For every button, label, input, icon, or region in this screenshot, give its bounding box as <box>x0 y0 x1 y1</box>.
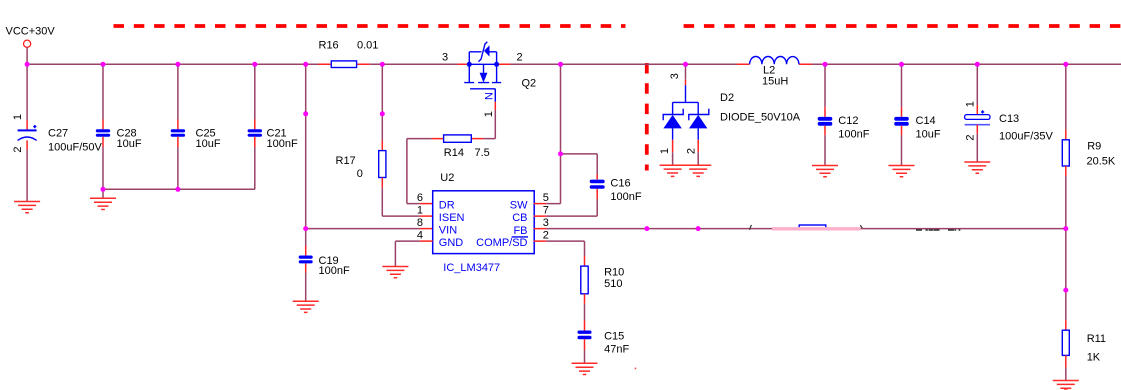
svg-text:R10: R10 <box>604 266 624 278</box>
wire SW pin to bus <box>546 64 560 203</box>
svg-text:R17: R17 <box>336 155 356 167</box>
svg-text:20.5K: 20.5K <box>1087 155 1116 167</box>
wire R9 to R11 <box>1065 229 1067 321</box>
ground for D2 pin1 <box>660 165 686 176</box>
svg-text:2: 2 <box>12 147 24 153</box>
wire VIN branch <box>306 64 433 228</box>
svg-text:510: 510 <box>604 278 622 290</box>
svg-text:0.01: 0.01 <box>357 40 378 52</box>
svg-text:U2: U2 <box>440 172 454 184</box>
transistor Q2 <box>442 42 536 118</box>
wire FB highlighted segment <box>772 227 861 230</box>
svg-text:1: 1 <box>483 111 495 117</box>
svg-text:3: 3 <box>543 217 549 229</box>
svg-text:COMP/SD: COMP/SD <box>476 237 527 249</box>
wire Q2 gate to R14 <box>483 102 495 139</box>
svg-text:15uH: 15uH <box>762 76 788 88</box>
resistor R17 <box>336 64 433 216</box>
svg-text:1: 1 <box>12 114 24 120</box>
red dashed boundary line vertical <box>645 63 649 171</box>
resistor R16 <box>318 40 378 68</box>
svg-text:C27: C27 <box>48 127 68 139</box>
op-amp U2 IC_LM3477 <box>417 172 549 274</box>
resistor R14 <box>432 135 490 159</box>
resistor partially hidden on FB net <box>799 225 826 229</box>
svg-text:3: 3 <box>442 51 448 63</box>
svg-text:CB: CB <box>512 212 527 224</box>
svg-text:1K: 1K <box>1087 351 1101 363</box>
svg-text:1: 1 <box>964 101 976 107</box>
svg-text:R9: R9 <box>1087 140 1101 152</box>
svg-text:7: 7 <box>543 205 549 217</box>
capacitor C25 <box>171 64 221 189</box>
resistor R9 <box>1062 64 1116 228</box>
svg-text:DIODE_50V10A: DIODE_50V10A <box>720 112 801 124</box>
svg-text:C14: C14 <box>916 115 936 127</box>
svg-text:D2: D2 <box>720 92 734 104</box>
tick marks on FB wire <box>750 225 863 230</box>
capacitor C16 <box>590 175 642 204</box>
svg-text:SW: SW <box>510 200 528 212</box>
svg-text:Q2: Q2 <box>522 78 537 90</box>
svg-text:4: 4 <box>417 230 423 242</box>
svg-text:C16: C16 <box>610 178 630 190</box>
ground for C28 C25 C21 <box>90 198 116 209</box>
inductor L2 <box>737 56 812 87</box>
svg-text:GND: GND <box>439 237 464 249</box>
svg-text:L2: L2 <box>763 64 775 76</box>
svg-text:C12: C12 <box>838 115 858 127</box>
svg-text:10uF: 10uF <box>117 138 142 150</box>
svg-text:2: 2 <box>543 230 549 242</box>
wire R14 to DR pin <box>407 139 433 204</box>
svg-text:7.5: 7.5 <box>475 147 490 159</box>
svg-text:C15: C15 <box>604 330 624 342</box>
hidden text fragments under FB wire <box>916 229 960 230</box>
svg-text:R11: R11 <box>1087 333 1106 345</box>
svg-text:10uF: 10uF <box>916 129 941 141</box>
svg-text:5: 5 <box>543 192 549 204</box>
svg-text:R14: R14 <box>444 147 464 159</box>
svg-text:R16: R16 <box>319 40 339 52</box>
ground for D2 pin2 <box>685 165 711 176</box>
capacitor C13 <box>964 64 1053 162</box>
capacitor C15 <box>578 304 630 364</box>
red dashed boundary line right <box>684 24 1121 28</box>
svg-text:0: 0 <box>357 168 363 180</box>
red dashed boundary line left <box>114 24 626 28</box>
diode D2 <box>659 64 801 165</box>
ground for R11 <box>1053 381 1079 390</box>
svg-text:N: N <box>483 92 495 100</box>
svg-text:ISEN: ISEN <box>439 212 465 224</box>
resistor R10 <box>581 256 624 304</box>
svg-text:1: 1 <box>659 148 671 154</box>
ground for C13 <box>964 162 990 173</box>
ground for C14 <box>889 166 915 177</box>
svg-text:100uF/35V: 100uF/35V <box>999 130 1053 142</box>
svg-text:100uF/50V: 100uF/50V <box>48 141 102 153</box>
ground for U2 GND <box>382 267 408 278</box>
svg-text:FB: FB <box>513 225 527 237</box>
svg-text:IC_LM3477: IC_LM3477 <box>443 262 500 274</box>
svg-text:100nF: 100nF <box>610 191 641 203</box>
svg-text:100nF: 100nF <box>319 265 350 277</box>
stray red speck <box>635 368 637 370</box>
wire main VCC bus <box>27 63 1121 65</box>
svg-text:C13: C13 <box>999 113 1019 125</box>
svg-text:2: 2 <box>517 51 523 63</box>
svg-text:47nF: 47nF <box>604 343 629 355</box>
svg-text:10uF: 10uF <box>196 138 221 150</box>
power port VCC+30V <box>6 25 56 64</box>
capacitor C28 <box>96 64 142 189</box>
wire COMP pin to R10 <box>546 241 584 256</box>
wire FB net <box>546 228 1066 230</box>
svg-text:3: 3 <box>669 73 681 79</box>
svg-text:100nF: 100nF <box>267 138 298 150</box>
svg-text:1: 1 <box>417 205 423 217</box>
svg-text:VCC+30V: VCC+30V <box>6 25 56 37</box>
capacitor C21 <box>248 64 298 189</box>
svg-text:100nF: 100nF <box>838 129 869 141</box>
svg-text:8: 8 <box>417 217 423 229</box>
svg-text:6: 6 <box>417 192 423 204</box>
capacitor C12 <box>818 64 870 165</box>
svg-text:2: 2 <box>964 135 976 141</box>
ground for C27 <box>14 202 40 213</box>
wire CB pin branch <box>546 154 597 216</box>
wire capacitor ground bus <box>103 189 255 198</box>
ground for C19 <box>293 301 319 312</box>
svg-text:VIN: VIN <box>439 225 457 237</box>
ground for C12 <box>812 166 838 177</box>
svg-text:2: 2 <box>686 148 698 154</box>
svg-text:DR: DR <box>439 200 455 212</box>
capacitor C14 <box>894 64 941 165</box>
wire GND pin to ground <box>395 241 419 266</box>
ground for C15 <box>572 363 598 374</box>
resistor R11 <box>1062 320 1106 380</box>
capacitor C19 <box>299 229 350 302</box>
capacitor C27 <box>12 64 102 201</box>
